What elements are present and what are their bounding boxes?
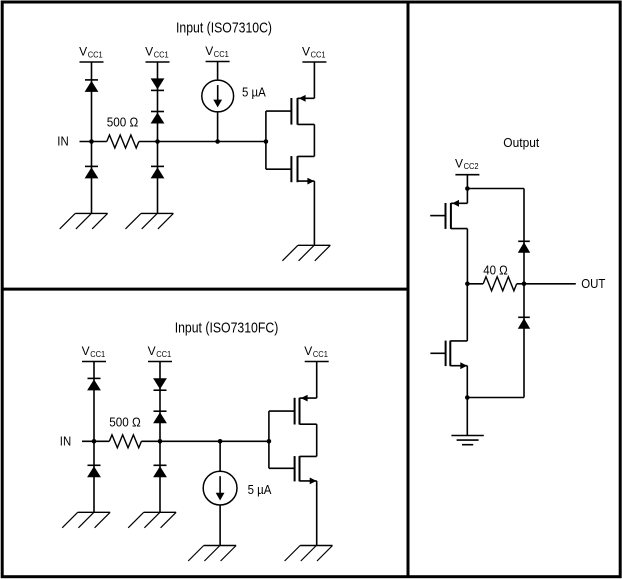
Vcc1 label branch 1 (panel 1): [79, 45, 103, 60]
wire IN net to gate node (panel 2): [141, 440, 269, 442]
wire Vcc1 to PMOS source (panel 1): [313, 62, 315, 98]
diode D1 to Vcc1 (panel 1): [85, 80, 99, 92]
svg-text:V: V: [79, 45, 87, 59]
wire NMOS gate lead (panel 2): [269, 467, 295, 469]
svg-text:V: V: [205, 44, 213, 58]
wire current source to ground (panel 2): [219, 505, 221, 546]
panel divider vertical: [407, 2, 410, 577]
wire Vcc1 to current source (panel 1): [217, 62, 219, 81]
wire PMOS drain to NMOS drain (panel 1): [313, 124, 315, 156]
wire branch 2 vertical (panel 2): [159, 362, 161, 513]
wire NMOS Q6 source lead: [450, 365, 467, 367]
wire top rail to clamp branch: [467, 188, 524, 190]
ground chassis transistor rail (panel 1): [282, 245, 330, 260]
resistor R1 500 ohm (panel 1): [107, 135, 139, 148]
wire NMOS source to ground (panel 1): [313, 181, 315, 245]
svg-text:IN: IN: [57, 133, 68, 148]
NMOS Q2 channel (panel 1): [297, 156, 299, 182]
Vcc1 label branch 2 (panel 1): [145, 45, 169, 60]
svg-text:CC1: CC1: [154, 51, 170, 60]
svg-text:Input (ISO7310C): Input (ISO7310C): [176, 20, 272, 37]
NMOS Q2 gate bar (panel 1): [290, 156, 292, 182]
wire OUT line: [524, 283, 576, 285]
Vcc1 supply bar branch 2 (panel 2): [148, 361, 172, 363]
wire NMOS Q6 gate stub: [430, 352, 445, 354]
svg-text:5 µA: 5 µA: [242, 84, 266, 99]
svg-text:500 Ω: 500 Ω: [109, 415, 141, 430]
wire PMOS Q5 source lead: [451, 202, 468, 204]
panel divider horizontal (left column): [2, 288, 408, 291]
diode D2 to ground (panel 1): [85, 166, 99, 178]
Vcc1 supply bar transistor rail (panel 1): [302, 61, 326, 63]
svg-text:V: V: [82, 344, 90, 358]
wire ground node down: [466, 398, 468, 436]
wire PMOS Q5 gate stub: [430, 215, 445, 217]
resistor R3 40 ohm: [483, 277, 517, 291]
Vcc2 supply bar: [455, 174, 479, 176]
svg-text:V: V: [304, 344, 312, 358]
Vcc1 label transistor rail (panel 2): [304, 344, 328, 359]
svg-text:V: V: [148, 344, 156, 358]
wire clamp branch vertical: [523, 189, 525, 398]
wire resistor left lead: [467, 283, 483, 285]
svg-text:5 µA: 5 µA: [248, 482, 272, 497]
diode D4 cathode-up (panel 1): [151, 112, 165, 124]
svg-text:OUT: OUT: [581, 276, 605, 291]
PMOS Q3 source arrow (panel 2): [301, 395, 308, 402]
wire PMOS Q5 drain lead: [451, 228, 468, 230]
svg-text:CC1: CC1: [311, 51, 327, 60]
diode D8 from Vcc1 anode-up (panel 2): [153, 378, 167, 390]
wire NMOS source to ground (panel 2): [316, 481, 318, 546]
wire Vcc2 to PMOS source: [466, 175, 468, 204]
wire PMOS drain to resistor node: [466, 229, 468, 284]
wire IN lead (panel 1): [80, 141, 107, 143]
svg-text:V: V: [455, 156, 463, 170]
wire PMOS drain to NMOS drain (panel 2): [316, 424, 318, 456]
NMOS Q6 source arrow: [460, 362, 467, 369]
NMOS Q6 channel: [449, 341, 451, 367]
node OUT clamp junction: [522, 282, 527, 287]
wire gate bus vertical (panel 2): [268, 411, 270, 468]
NMOS Q2 source arrow (panel 1): [307, 178, 314, 185]
current source I1 5uA (panel 1): [202, 80, 234, 112]
wire ground node to clamp branch: [467, 397, 524, 399]
diode D9 cathode-up (panel 2): [153, 411, 167, 423]
ground earth output: [451, 436, 483, 445]
ground chassis branch 1 (panel 2): [62, 512, 110, 528]
ground chassis current source (panel 2): [188, 546, 236, 562]
wire branch 2 vertical (panel 1): [157, 62, 159, 213]
Vcc1 supply bar branch 1 (panel 2): [82, 361, 106, 363]
wire PMOS Q1 source lead (panel 1): [298, 97, 315, 99]
PMOS Q5 channel: [450, 203, 452, 229]
svg-text:40 Ω: 40 Ω: [483, 263, 508, 278]
wire PMOS Q1 drain lead (panel 1): [298, 123, 315, 125]
wire PMOS gate lead (panel 1): [266, 110, 292, 112]
op PMOS Q1 gate bar (panel 1): [290, 98, 292, 125]
PMOS Q5 gate bar: [445, 203, 447, 229]
svg-text:CC1: CC1: [313, 350, 329, 359]
node IN-branch1 junction (panel 1): [89, 139, 94, 144]
wire NMOS Q2 source lead (panel 1): [298, 180, 315, 182]
node gate junction (panel 2): [267, 439, 272, 444]
PMOS Q3 gate bar (panel 2): [294, 398, 296, 425]
PMOS Q1 source arrow (panel 1): [299, 95, 306, 102]
wire NMOS Q4 source lead (panel 2): [300, 480, 317, 482]
wire NMOS source to ground node: [466, 366, 468, 398]
node IN-branch2 junction (panel 1): [155, 139, 160, 144]
svg-text:CC1: CC1: [90, 350, 106, 359]
svg-text:CC1: CC1: [214, 50, 230, 59]
NMOS Q6 gate bar: [445, 341, 447, 367]
svg-text:V: V: [145, 45, 153, 59]
ground chassis branch 2 (panel 2): [128, 512, 176, 528]
Vcc1 supply bar branch 1 (panel 1): [80, 61, 104, 63]
wire Vcc1 to PMOS source (panel 2): [316, 362, 318, 399]
svg-text:CC1: CC1: [88, 51, 104, 60]
wire branch 1 vertical (panel 1): [91, 62, 93, 213]
Vcc1 label branch 2 (panel 2): [148, 344, 172, 359]
node resistor left junction: [465, 282, 470, 287]
wire resistor node to NMOS drain: [466, 284, 468, 341]
wire NMOS Q4 drain lead (panel 2): [300, 455, 317, 457]
diode D6 to Vcc1 (panel 2): [87, 378, 101, 390]
diode D5 to ground (panel 1): [151, 166, 165, 178]
ground chassis transistor rail (panel 2): [285, 546, 333, 562]
wire resistor right lead: [517, 283, 524, 285]
svg-text:V: V: [302, 45, 310, 59]
svg-text:CC2: CC2: [464, 162, 480, 171]
resistor R2 500 ohm (panel 2): [109, 435, 141, 448]
wire branch 1 vertical (panel 2): [93, 362, 95, 513]
PMOS Q5 source arrow: [452, 200, 459, 207]
node ground junction: [465, 395, 470, 400]
wire NMOS Q6 drain lead: [450, 340, 467, 342]
Vcc1 label current source (panel 1): [205, 44, 229, 59]
Vcc1 supply bar current source (panel 1): [206, 61, 230, 63]
Vcc1 label branch 1 (panel 2): [82, 344, 106, 359]
svg-text:500 Ω: 500 Ω: [107, 115, 139, 130]
wire NMOS Q2 drain lead (panel 1): [298, 155, 315, 157]
wire PMOS Q3 drain lead (panel 2): [300, 423, 317, 425]
node gate junction (panel 1): [264, 139, 269, 144]
diode D10 to ground (panel 2): [153, 465, 167, 477]
Vcc1 supply bar branch 2 (panel 1): [146, 61, 170, 63]
node current source junction (panel 1): [215, 139, 220, 144]
diode D11 clamp to Vcc2: [518, 241, 530, 253]
NMOS Q4 channel (panel 2): [299, 456, 301, 481]
wire NMOS gate lead (panel 1): [266, 168, 292, 170]
wire PMOS Q3 source lead (panel 2): [300, 397, 317, 399]
wire IN lead (panel 2): [82, 440, 109, 442]
wire PMOS gate lead (panel 2): [269, 410, 295, 412]
PMOS Q1 channel (panel 1): [297, 98, 299, 125]
svg-text:CC1: CC1: [156, 350, 172, 359]
ground chassis branch 2 (panel 1): [126, 213, 174, 229]
current source I2 5uA (panel 2): [203, 471, 237, 505]
Vcc1 supply bar transistor rail (panel 2): [305, 361, 329, 363]
svg-text:Output: Output: [503, 135, 539, 150]
wire current source to IN net (panel 1): [217, 112, 219, 142]
NMOS Q4 gate bar (panel 2): [294, 456, 296, 481]
ground chassis branch 1 (panel 1): [60, 213, 108, 229]
wire IN net to current source (panel 2): [219, 441, 221, 471]
svg-text:Input (ISO7310FC): Input (ISO7310FC): [175, 319, 279, 336]
NMOS Q4 source arrow (panel 2): [310, 478, 317, 485]
diode D3 from Vcc1 anode-up (panel 1): [151, 78, 165, 90]
node Vcc2 junction: [465, 186, 470, 191]
wire IN net to gate node (panel 1): [139, 141, 266, 143]
diode D12 clamp from ground node: [518, 317, 530, 329]
wire gate bus vertical (panel 1): [265, 111, 267, 169]
node current source junction (panel 2): [218, 439, 223, 444]
Vcc1 label transistor rail (panel 1): [302, 45, 326, 60]
node IN-branch1 junction (panel 2): [92, 439, 97, 444]
Vcc2 label: [455, 156, 479, 171]
diode D7 to ground (panel 2): [87, 465, 101, 477]
svg-text:IN: IN: [60, 433, 71, 448]
node IN-branch2 junction (panel 2): [158, 439, 163, 444]
PMOS Q3 channel (panel 2): [299, 398, 301, 425]
